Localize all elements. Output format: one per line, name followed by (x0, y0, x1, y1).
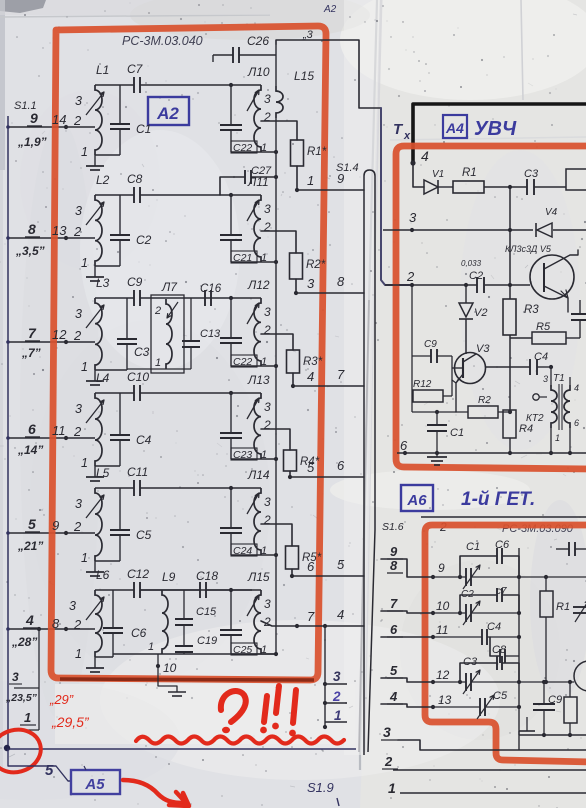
svg-text:С4: С4 (487, 621, 501, 633)
length note „23,5” (5, 692, 38, 704)
svg-text:С1: С1 (450, 427, 464, 439)
block A2 red frame (51, 26, 326, 680)
node 10 (156, 654, 177, 686)
block A4 blue tag (443, 115, 467, 138)
inductor L6 (69, 568, 110, 661)
trimmer capacitor С24 (220, 488, 267, 557)
svg-text:2: 2 (154, 305, 161, 317)
svg-text:„21”: „21” (17, 539, 43, 553)
inductor Л14 (231, 468, 271, 555)
svg-text:9: 9 (438, 561, 445, 575)
resistor R1 (291, 140, 327, 166)
svg-text:2: 2 (73, 328, 82, 343)
svg-text:1: 1 (81, 551, 88, 565)
switch S1.4 bus (364, 170, 375, 755)
svg-text:4: 4 (574, 383, 579, 393)
svg-text:С2: С2 (469, 270, 483, 282)
contact 8 tap 2 labels (52, 616, 82, 632)
capacitor C27 (220, 165, 278, 195)
node Tx junction (410, 160, 415, 165)
capacitor C6 (A6) (460, 539, 519, 577)
diode V2 (459, 285, 487, 354)
svg-text:„28”: „28” (11, 635, 37, 649)
resistor R1 (A4) (453, 167, 510, 193)
svg-text:КЛ3с3Д V5: КЛ3с3Д V5 (505, 244, 552, 254)
svg-text:Л13: Л13 (247, 373, 270, 387)
svg-text:УВЧ: УВЧ (474, 118, 517, 140)
pin 3/8 labels (307, 274, 345, 291)
wire Л14 tap2 to R5 (261, 524, 292, 546)
inductor L7 (154, 299, 178, 369)
svg-text:L9: L9 (162, 570, 176, 584)
svg-text:6: 6 (390, 622, 398, 637)
trimmer capacitor С22 (220, 298, 267, 368)
svg-text:L6: L6 (96, 568, 110, 582)
pin 3 label (A4) (409, 210, 417, 225)
svg-text:3: 3 (264, 305, 271, 319)
svg-text:С2: С2 (136, 233, 152, 247)
capacitor C2 (A4) (461, 259, 484, 293)
wire pin 4 row (381, 704, 435, 709)
wire stage3 bottom ext (127, 368, 191, 370)
capacitor C3 (A4) (510, 168, 566, 195)
capacitor С10 (127, 370, 149, 401)
label UVCh (474, 118, 517, 140)
label 5 (blue) (45, 762, 54, 779)
length note „7” (21, 346, 41, 360)
svg-text:„3,5”: „3,5” (15, 244, 45, 258)
wire pin 4 row (6, 627, 95, 631)
pin 1/9 labels (307, 171, 344, 188)
wire Л12 tap2 to R3 (261, 334, 293, 350)
svg-text:5: 5 (307, 460, 315, 475)
trimmer capacitor C2 (A6) (433, 589, 521, 625)
label 13 (A6 row5) (438, 693, 452, 707)
svg-text:8: 8 (52, 616, 60, 631)
wire stage 4 bottom (95, 465, 120, 467)
wire pin 9 row (6, 125, 95, 129)
wire R4 to pin (288, 471, 364, 479)
diode V1 (424, 169, 453, 194)
wire stage 4 top (95, 391, 233, 395)
svg-text:5: 5 (390, 663, 398, 678)
ground under C1 (427, 453, 447, 465)
transistor V5 (530, 250, 578, 312)
svg-text:2: 2 (263, 513, 271, 527)
capacitor С12 (127, 567, 149, 598)
capacitor С9 (127, 275, 143, 306)
capacitor С3 (117, 298, 150, 370)
svg-text:„1,9”: „1,9” (17, 135, 47, 149)
wire stage6 bottom (113, 641, 276, 654)
wire R5 to pin (290, 569, 364, 578)
svg-text:1: 1 (334, 708, 342, 723)
pin 1 row (A6) (388, 780, 586, 796)
resistor R5 (286, 546, 322, 569)
pin 7/4 labels (307, 607, 344, 624)
svg-text:3: 3 (264, 92, 271, 106)
capacitor C7 (A6) (460, 586, 519, 613)
wire S1.1 bus (7, 116, 9, 749)
length note „21” (17, 539, 43, 553)
svg-text:R1: R1 (462, 167, 477, 179)
svg-text:1: 1 (81, 145, 88, 159)
capacitor C1 (A4) (427, 410, 464, 453)
svg-text:4: 4 (421, 148, 429, 164)
svg-text:С9: С9 (127, 275, 143, 289)
svg-text:С4: С4 (136, 433, 152, 447)
svg-text:R3*: R3* (303, 356, 323, 368)
trimmer capacitor C1 (A6) (433, 541, 521, 589)
wire A6 bus (518, 548, 520, 750)
svg-text:2: 2 (263, 323, 271, 337)
trimmer capacitor С22 (220, 85, 267, 154)
wire pin 1 stub (16, 729, 39, 731)
svg-text:S1.6: S1.6 (382, 521, 404, 533)
length note „28” (11, 635, 37, 649)
svg-text:КТ2: КТ2 (526, 413, 544, 424)
resistor R4 (A4) (503, 410, 533, 453)
wire stage 5 tank bottom (231, 553, 278, 557)
inductor L15 (top) (276, 44, 314, 152)
svg-text:1: 1 (155, 357, 161, 369)
wire Л11 tap2 to R2 (261, 231, 296, 253)
svg-text:7: 7 (390, 596, 398, 611)
switch S1.6 label (382, 521, 404, 533)
svg-text:12: 12 (436, 668, 450, 682)
svg-text:2: 2 (384, 754, 393, 769)
block A6 red frame (425, 525, 586, 762)
svg-text:С1: С1 (466, 541, 480, 553)
svg-text:3: 3 (69, 599, 76, 613)
inductor L4 (75, 371, 110, 470)
capacitor С4 (110, 393, 152, 466)
pin 5 label (25, 516, 40, 532)
wire R1 to pin (295, 166, 364, 192)
wire A6 row4 ext (519, 680, 574, 684)
trimmer capacitor C3 (A6) (433, 656, 521, 694)
svg-text:R3: R3 (524, 304, 539, 316)
pin 4 label (421, 148, 429, 164)
capacitor C9 (A4) (412, 339, 452, 363)
wire stage 1 top (95, 83, 233, 87)
svg-text:12: 12 (52, 327, 67, 342)
pin 2 label (A4) (406, 269, 415, 284)
wire A4 bottom rail (397, 451, 586, 455)
wire Л10 tap2 to R1 (261, 121, 297, 140)
wire exit ladder (323, 626, 327, 729)
block A2 frame bottom shade (60, 679, 314, 680)
svg-text:2: 2 (73, 424, 82, 439)
wire long bottom (5, 748, 356, 750)
ground stage 1 (86, 155, 104, 170)
inductor Л15 (231, 570, 271, 654)
label T1 (553, 373, 565, 384)
wire stage 2 top (95, 193, 233, 197)
svg-text:1: 1 (81, 360, 88, 374)
wire stage 3 top (95, 296, 233, 300)
capacitor С11 (127, 465, 148, 496)
svg-text:13: 13 (52, 223, 67, 238)
inductor Л11 (231, 175, 271, 262)
wire R2 to pin (294, 279, 364, 295)
svg-text:1-й ГЕТ.: 1-й ГЕТ. (461, 489, 535, 510)
pin 4 label (23, 612, 38, 628)
capacitor edge (A4) (571, 300, 586, 338)
wire A6 bottom rail (519, 733, 586, 737)
svg-text:С18: С18 (196, 569, 218, 583)
switch S1.1 label (14, 100, 37, 112)
svg-text:РС-3М.03.040: РС-3М.03.040 (122, 34, 203, 48)
wire stage 5 bottom (95, 560, 120, 562)
svg-text:4: 4 (337, 607, 344, 622)
pin 5/6 labels (307, 458, 345, 475)
svg-text:L2: L2 (96, 173, 110, 187)
pin 4/7 labels (307, 367, 345, 384)
label 11 (A6 row3) (436, 623, 448, 637)
wire stage 6 bottom (95, 656, 113, 658)
svg-text:9: 9 (30, 110, 38, 126)
svg-text:3: 3 (264, 202, 271, 216)
svg-text:R1: R1 (556, 601, 570, 613)
svg-text:С5: С5 (136, 528, 152, 542)
resistor R2 (A4) (412, 395, 512, 418)
ground stage 4 (86, 466, 104, 481)
svg-text:„29”: „29” (49, 692, 74, 707)
svg-text:3: 3 (75, 497, 82, 511)
svg-text:2: 2 (73, 519, 82, 534)
svg-text:11: 11 (52, 423, 66, 438)
contact 9 tap 2 labels (52, 518, 82, 534)
wire to A5 (8, 749, 71, 781)
svg-text:3: 3 (409, 210, 417, 225)
svg-text:7: 7 (28, 325, 37, 341)
svg-text:V1: V1 (432, 169, 444, 180)
svg-text:С7: С7 (127, 62, 144, 76)
wire stage 3 bottom (95, 369, 127, 371)
capacitor C4 (A4) (486, 351, 553, 375)
svg-text:3: 3 (543, 374, 548, 384)
wire pin 3 step (A6) (381, 724, 586, 750)
contact 12 tap 2 labels (52, 327, 82, 343)
capacitor С8 (127, 172, 143, 203)
resistor R5 (A4) (510, 321, 580, 344)
ground A6 (519, 717, 535, 735)
svg-text:3: 3 (75, 94, 82, 108)
wire Л13 tap2 to R4 (261, 429, 290, 450)
svg-text:С19: С19 (197, 635, 217, 647)
capacitor C19 (175, 625, 217, 654)
svg-text:Л12: Л12 (247, 278, 270, 292)
svg-text:R5: R5 (536, 321, 551, 333)
switch S1.4 label (336, 162, 359, 174)
svg-text:С8: С8 (127, 172, 143, 186)
inductor L5 (75, 466, 110, 565)
block A5 blue tag (71, 766, 120, 794)
capacitor edge top (A6) (556, 542, 586, 556)
wire stage 1 tank bottom (231, 150, 278, 154)
length note „14” (17, 443, 43, 457)
svg-text:3: 3 (75, 307, 82, 321)
length note „3,5” (15, 244, 45, 258)
wire base loop (412, 285, 452, 412)
svg-text:6: 6 (307, 559, 315, 574)
capacitor C13 (182, 298, 221, 369)
handwritten A2 note (323, 4, 337, 15)
svg-text:S1.4: S1.4 (336, 162, 359, 174)
wire stage 2 bottom (95, 265, 120, 267)
svg-text:1: 1 (75, 647, 82, 661)
resistor R2 (290, 253, 326, 279)
pin 9 label (27, 110, 42, 126)
wire Tx thick (413, 104, 586, 163)
wire stage6 top ext (140, 589, 252, 591)
svg-text:3: 3 (264, 597, 271, 611)
svg-text:S1.9: S1.9 (307, 780, 334, 795)
resistor input (edge) (566, 169, 586, 190)
wire pin 5 row (381, 678, 435, 684)
svg-text:10: 10 (436, 599, 450, 613)
capacitor C4 (A6) (433, 621, 521, 645)
inductor Л12 (231, 278, 271, 366)
svg-text:А4: А4 (445, 120, 464, 136)
svg-text:L3: L3 (96, 276, 110, 290)
svg-text:А6: А6 (406, 492, 427, 509)
inductor L9 (162, 570, 176, 654)
pin 8 label (25, 221, 40, 237)
capacitor C15 (175, 590, 217, 625)
svg-text:Т1: Т1 (553, 373, 565, 384)
svg-text:1: 1 (148, 641, 154, 653)
ground node 10 (158, 686, 186, 696)
transformer KT2 (526, 367, 579, 453)
svg-text:С3: С3 (524, 168, 539, 180)
pin 7 label (25, 325, 40, 341)
svg-text:V4: V4 (545, 207, 558, 218)
wire stage 4 tank bottom (231, 457, 278, 461)
svg-text:С13: С13 (200, 328, 221, 340)
capacitor C26 (213, 34, 276, 63)
node circled junction (4, 745, 10, 751)
label 12 (A6 row4) (436, 668, 450, 682)
svg-text:С6: С6 (131, 626, 147, 640)
svg-text:2: 2 (332, 689, 341, 704)
capacitor С6 (103, 590, 147, 657)
trimmer capacitor С21 (220, 195, 267, 264)
pin 6 label (25, 421, 40, 437)
svg-text:5: 5 (337, 557, 345, 572)
block A6 blue tag (401, 485, 433, 511)
svg-text:L1: L1 (96, 63, 109, 77)
trimmer capacitor С23 (220, 393, 267, 461)
capacitor C8 (A6) (490, 637, 519, 663)
doc number PC-3M.03.090 (502, 523, 574, 535)
diode V4 (536, 207, 558, 237)
resistor R3 (287, 350, 323, 373)
svg-text:1: 1 (555, 433, 560, 443)
pin 7 label (A6) (387, 596, 403, 611)
svg-text:5: 5 (45, 762, 54, 779)
ground stage 2 (86, 266, 104, 281)
svg-text:R1*: R1* (307, 146, 327, 158)
node V1-R1-C3 (508, 185, 512, 189)
doc number PC-3M.03.040 (122, 34, 203, 48)
svg-text:4: 4 (25, 612, 34, 628)
inductor L3 (75, 276, 110, 374)
svg-text:С3: С3 (463, 656, 478, 668)
svg-text:11: 11 (436, 623, 448, 637)
svg-text:1: 1 (24, 710, 31, 725)
svg-text:8: 8 (337, 274, 345, 289)
svg-text:Л14: Л14 (247, 468, 270, 482)
wire Tx drop (381, 108, 412, 285)
pin 1 label (20, 710, 36, 725)
svg-text:9: 9 (52, 518, 59, 533)
svg-text:0,033: 0,033 (461, 259, 482, 268)
svg-text:А2: А2 (156, 104, 179, 123)
wire pin 6 row (6, 436, 95, 440)
label Tx (393, 121, 411, 142)
svg-text:R2: R2 (478, 395, 491, 406)
wire R3 to pin (291, 373, 364, 388)
svg-text:С10: С10 (127, 370, 149, 384)
svg-text:V3: V3 (476, 343, 490, 355)
note 29 (red) (49, 692, 74, 707)
contact 14 tap 2 labels (52, 112, 82, 128)
resistor R1 (A6) (519, 575, 586, 682)
wire stage 3 tank bottom (231, 364, 278, 368)
pin 6 label (A6) (387, 622, 403, 637)
svg-text:А2: А2 (323, 4, 337, 15)
inductor Л13 (231, 373, 271, 459)
svg-text:2: 2 (263, 110, 271, 124)
resistor R3 (A4) (503, 187, 539, 410)
svg-text:С1: С1 (136, 122, 151, 136)
svg-text:R2*: R2* (306, 259, 326, 271)
svg-text:6: 6 (400, 438, 408, 453)
trimmer capacitor edge (A6) (573, 600, 586, 622)
svg-text:R12: R12 (413, 379, 432, 390)
svg-text:2: 2 (73, 113, 82, 128)
svg-text:2: 2 (73, 617, 82, 632)
contact 13 tap 2 labels (52, 223, 82, 239)
svg-text:С11: С11 (127, 465, 148, 479)
wire pin 5 row (6, 531, 95, 535)
shield box L7 (151, 280, 184, 373)
wire pins 9/8 bracket (381, 559, 435, 579)
pin 3 exit (325, 669, 347, 684)
trimmer capacitor С25 (220, 590, 267, 656)
resistor R4 (284, 450, 320, 471)
label 10 (A6 row2) (436, 599, 450, 613)
svg-text:8: 8 (28, 221, 36, 237)
wire tank common bus (275, 152, 277, 654)
wire pin 7 row (381, 611, 435, 615)
resistor A6 right (564, 680, 577, 735)
svg-text:5: 5 (28, 516, 36, 532)
svg-text:L4: L4 (96, 371, 110, 385)
svg-text:1: 1 (81, 456, 88, 470)
transistor V5 marking (505, 244, 552, 254)
svg-text:3: 3 (383, 724, 391, 740)
label 1-y GET (461, 489, 535, 510)
inductor L2 (75, 173, 110, 270)
wire Л15 tap2 to pin 7/4 (261, 621, 364, 628)
wire A6 top rail (421, 516, 586, 518)
svg-text:7: 7 (337, 367, 345, 382)
capacitor С1 (110, 85, 151, 155)
svg-text:3: 3 (333, 669, 341, 684)
